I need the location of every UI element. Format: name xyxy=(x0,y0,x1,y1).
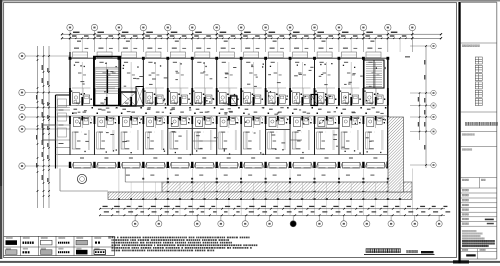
small dimension dots scatter xyxy=(74,62,386,155)
top dimension lines with ticks and figures xyxy=(61,32,442,52)
canopy hatch band upper xyxy=(162,181,412,193)
grid drop lines to bottom dimensions xyxy=(119,169,412,216)
title block heavy left bar xyxy=(458,2,460,264)
duct shaft D1 xyxy=(231,96,238,106)
title block notes paragraph xyxy=(462,230,494,247)
right secondary dim line xyxy=(418,92,420,140)
stair S1 xyxy=(94,57,121,106)
title block outer box xyxy=(461,2,497,259)
right axis bubbles xyxy=(410,43,436,167)
corridor lines xyxy=(58,106,388,117)
bottom axis bubbles xyxy=(132,215,442,227)
title block signature rows xyxy=(461,178,497,227)
scan page top edge band xyxy=(0,0,500,2)
drawing title row in title block xyxy=(461,112,498,136)
left axis bubbles A-F xyxy=(19,53,70,169)
service duct shaft xyxy=(136,87,143,107)
bathroom fixtures upper rooms xyxy=(71,91,385,104)
scan page bottom edge band xyxy=(0,260,500,263)
interior dimension strings xyxy=(74,48,382,159)
south inner wall line xyxy=(58,154,388,156)
left vertical dimension lines xyxy=(36,46,50,208)
scan page left edge strip xyxy=(0,0,2,259)
legend swatches and labels xyxy=(6,237,106,254)
corridor clutter marks xyxy=(72,97,386,121)
building east wall xyxy=(388,56,410,168)
stair S2 xyxy=(364,60,384,88)
title block bottom sheet-number cells xyxy=(461,249,497,260)
terrace boundary bottom left xyxy=(60,169,162,192)
title block middle divider xyxy=(461,147,497,151)
bottom dimension lines ticks and figures xyxy=(99,206,450,216)
wardrobes lower rooms xyxy=(72,130,383,150)
room partition thin walls xyxy=(72,62,384,128)
title block stamp section divider xyxy=(461,43,497,47)
legend table frame xyxy=(4,236,115,255)
elevator shaft xyxy=(121,92,136,106)
interior cross walls at grid lines xyxy=(69,59,389,155)
entry fixtures lower rooms xyxy=(73,118,385,127)
sheet title text xyxy=(364,249,435,255)
duct shaft D2 xyxy=(311,95,318,106)
west wing interior detail xyxy=(56,95,71,169)
south facade bay windows xyxy=(69,162,390,169)
canopy hatch band lower xyxy=(108,192,412,200)
suite divider walls lower zone xyxy=(168,128,339,141)
project name vertical text Hangzhou Boutique Hotel xyxy=(475,57,482,106)
terrace column circle xyxy=(77,174,86,183)
building west wing walls xyxy=(56,52,71,169)
top axis grid bubbles 1-15 xyxy=(67,24,416,30)
west annex notch xyxy=(43,125,56,140)
building north facade wall with piers xyxy=(69,57,390,60)
corridor door swings xyxy=(76,101,385,120)
top axis bubble stems xyxy=(70,31,412,52)
canopy edge dots row xyxy=(126,175,389,180)
north facade window sills xyxy=(73,52,381,58)
general notes text block xyxy=(109,236,258,251)
east hatch strip xyxy=(388,117,404,192)
right vertical dimension line xyxy=(424,45,427,168)
